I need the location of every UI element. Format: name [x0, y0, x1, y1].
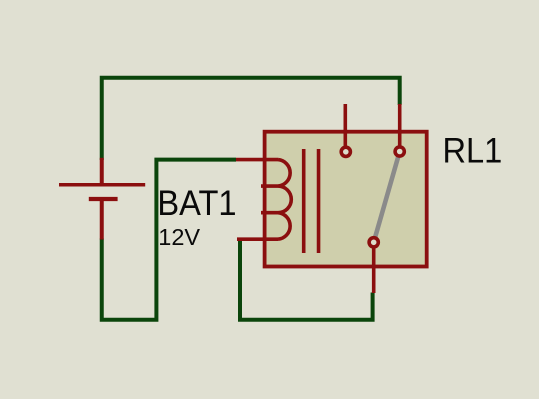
contact circle NC — [341, 147, 350, 156]
svg-text:12V: 12V — [158, 224, 200, 250]
wire — [240, 240, 373, 320]
contact circle NO — [395, 147, 404, 156]
coil pin stub bottom — [237, 237, 278, 241]
svg-text:BAT1: BAT1 — [157, 184, 236, 223]
wire — [102, 78, 400, 160]
wire — [102, 160, 236, 320]
contact circle common — [369, 238, 378, 247]
relay RL1 — [236, 104, 427, 293]
coil pin stub top — [236, 158, 278, 162]
pin stub common — [372, 242, 376, 293]
switch arm — [374, 152, 400, 243]
pin stub NC — [343, 104, 347, 152]
battery BAT1 — [59, 158, 145, 240]
relay body — [265, 132, 427, 267]
pin stub NO — [398, 104, 402, 152]
coil L1 — [261, 160, 291, 240]
core line — [302, 149, 306, 253]
core line — [317, 149, 321, 253]
svg-text:RL1: RL1 — [443, 131, 503, 170]
